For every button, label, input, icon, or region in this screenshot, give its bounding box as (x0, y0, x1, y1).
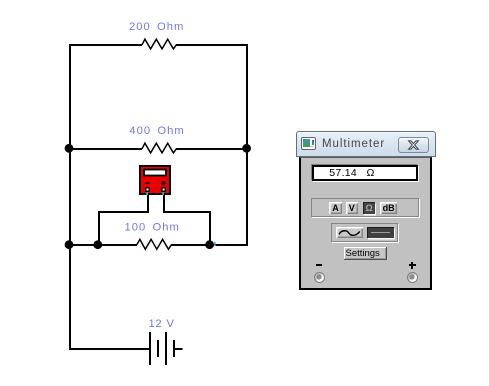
plus terminal jack (407, 272, 418, 283)
button A (ammeter) (329, 202, 343, 214)
wire: top rail left segment (69, 44, 142, 46)
label V1 value 12 V (149, 318, 175, 330)
Settings button (344, 247, 387, 260)
button AC (sine) (336, 227, 363, 238)
probe minus pin connection tick (146, 192, 148, 195)
junction node right-middle (242, 144, 251, 153)
battery V1 12V (150, 332, 183, 365)
wire: probe plus lead drop to bottom rail (209, 211, 211, 246)
resistor R3 100 Ohm zigzag (137, 239, 172, 249)
svg-text:400 Ohm: 400 Ohm (129, 125, 184, 137)
Multimeter instrument window (296, 131, 436, 290)
junction node probe-plus (205, 240, 214, 249)
resistor R2 400 Ohm zigzag (142, 143, 176, 153)
label R1 value 200 Ohm (129, 21, 184, 33)
svg-text:100 Ohm: 100 Ohm (125, 222, 180, 234)
junction node left-middle (65, 144, 74, 153)
window title bar (296, 131, 436, 157)
wire: right vertical rail (246, 44, 248, 246)
window close button (398, 137, 429, 153)
measurement display (312, 165, 418, 181)
wire: middle rail left segment (69, 148, 142, 150)
net probe indicator at plus node (214, 242, 216, 246)
wire: probe minus lead drop to bottom rail (98, 211, 100, 246)
mode buttons groove box (311, 198, 419, 217)
waveform groove box (331, 223, 398, 242)
button V (voltmeter) (346, 202, 358, 214)
probe plus pin connection tick (162, 192, 164, 195)
wire: middle rail right segment (176, 148, 248, 150)
label R3 value 100 Ohm (125, 222, 180, 234)
wire: bottom rail right segment (171, 244, 248, 246)
wire: bottom rail left segment (69, 244, 137, 246)
multimeter probe XMM1 body (140, 166, 170, 194)
junction node bottom-left (65, 240, 74, 249)
wire: bottom feed horizontal to battery (69, 348, 150, 350)
wire: top rail right segment (176, 44, 248, 46)
junction node probe-minus (93, 240, 102, 249)
minus terminal jack (314, 272, 325, 283)
label R2 value 400 Ohm (129, 125, 184, 137)
wire: probe minus lead vertical from probe (147, 195, 149, 213)
window title text (322, 138, 385, 150)
window icon (301, 137, 317, 150)
wire: probe plus lead vertical from probe (163, 195, 165, 213)
wire: probe plus lead horizontal (163, 211, 211, 213)
svg-text:12 V: 12 V (149, 318, 175, 330)
button DC (pressed) (367, 227, 394, 239)
button dB (380, 202, 398, 214)
plus terminal label (409, 264, 416, 266)
wire: probe minus lead horizontal (98, 211, 149, 213)
wire: left vertical rail (69, 44, 71, 350)
minus terminal label (316, 264, 322, 266)
button Ohm (pressed) (363, 202, 375, 214)
resistor R1 200 Ohm zigzag (142, 39, 176, 49)
instrument face panel (299, 157, 432, 290)
svg-text:200 Ohm: 200 Ohm (129, 21, 184, 33)
